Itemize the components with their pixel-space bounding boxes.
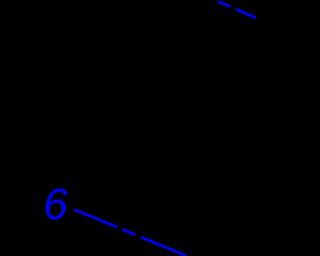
svg-text:6: 6 [43,180,68,229]
